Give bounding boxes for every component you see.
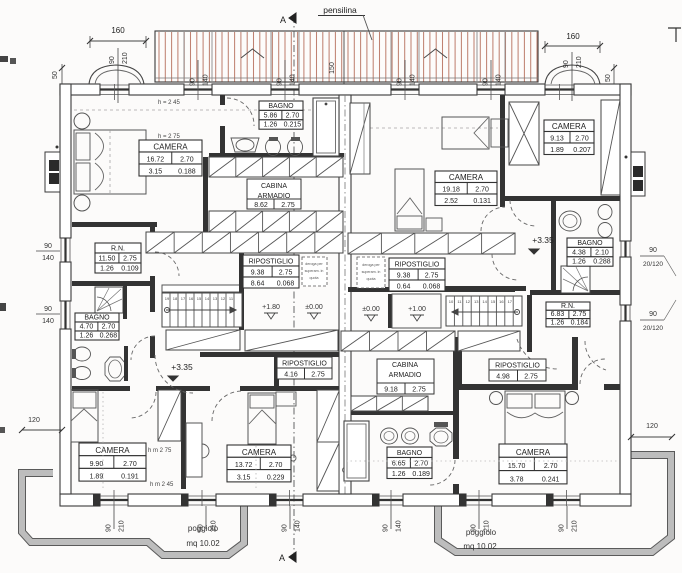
bidet bagno 4.38 — [598, 223, 612, 238]
svg-text:deroga per: deroga per — [362, 263, 380, 267]
svg-text:13: 13 — [474, 299, 479, 304]
sink B bagno 6.65 — [402, 428, 419, 444]
corridor south wall mid — [200, 352, 339, 357]
wall lamp camera 13.72 — [290, 455, 296, 461]
dimension 120 left — [19, 417, 65, 433]
svg-text:0.268: 0.268 — [100, 333, 118, 340]
wardrobe band cabina TL lower — [209, 211, 343, 232]
ripostiglio 4.98 east wall — [572, 337, 578, 390]
svg-text:CAMERA: CAMERA — [516, 448, 551, 457]
dimension 160 top-right — [542, 32, 603, 53]
svg-text:140: 140 — [396, 520, 403, 532]
table bagno left 4.70 — [75, 313, 119, 322]
dimension 160 top-left — [87, 26, 149, 48]
under-stairs band right — [341, 331, 455, 351]
svg-text:+1.80: +1.80 — [262, 304, 280, 311]
svg-text:120: 120 — [28, 417, 40, 424]
landing right unit — [392, 294, 441, 328]
svg-text:210: 210 — [119, 520, 126, 532]
bidet bagno TL — [288, 137, 303, 156]
right wall meter box — [631, 152, 645, 196]
wardrobe band corridor left — [146, 232, 343, 253]
svg-text:quota: quota — [367, 277, 376, 281]
svg-text:0.068: 0.068 — [277, 281, 295, 288]
deroga note box left — [302, 257, 327, 286]
svg-text:11.50: 11.50 — [98, 256, 115, 263]
svg-text:2.70: 2.70 — [102, 324, 116, 331]
svg-text:0.109: 0.109 — [121, 266, 139, 273]
svg-text:+3.35: +3.35 — [532, 235, 554, 245]
stairwell north wall left — [162, 285, 243, 292]
svg-text:0.189: 0.189 — [412, 471, 430, 478]
svg-text:4.70: 4.70 — [80, 324, 94, 331]
svg-text:0.229: 0.229 — [267, 474, 285, 481]
svg-text:2.70: 2.70 — [286, 112, 300, 119]
wardrobe camera 9.13 — [509, 102, 539, 165]
table ripostiglio 4.98 — [489, 359, 546, 381]
svg-text:14: 14 — [482, 299, 487, 304]
table ripostiglio left 9.38 — [243, 255, 299, 266]
door arc bagno left door — [131, 336, 155, 360]
svg-text:210: 210 — [572, 520, 579, 532]
door arc bagno 6.65 — [430, 460, 455, 485]
door arc corridor right B — [585, 341, 606, 370]
svg-text:2.10: 2.10 — [595, 249, 609, 256]
svg-text:RIPOSTIGLIO: RIPOSTIGLIO — [495, 363, 540, 370]
under-stairs closet left B — [245, 330, 338, 351]
right exterior wall — [620, 84, 631, 494]
svg-text:+1.00: +1.00 — [408, 306, 426, 313]
door arc camera 9.90 — [130, 392, 156, 418]
right wall window label 90 20/120 upper — [640, 247, 676, 276]
svg-text:0.207: 0.207 — [573, 147, 591, 154]
door arc camera 19.18 — [481, 207, 505, 231]
svg-text:2.75: 2.75 — [412, 387, 426, 394]
svg-text:140: 140 — [42, 255, 54, 262]
svg-text:1.26: 1.26 — [572, 259, 586, 266]
svg-text:2.70: 2.70 — [475, 187, 489, 194]
svg-text:150: 150 — [329, 62, 336, 74]
svg-text:15: 15 — [491, 299, 496, 304]
cabina armadio west wall — [203, 157, 208, 253]
left balcony poggiolo parapet — [22, 473, 244, 555]
top-left bow window arc — [89, 65, 144, 84]
wall camera 9.13 south — [505, 196, 620, 201]
svg-text:4.38: 4.38 — [572, 249, 586, 256]
svg-text:50: 50 — [605, 74, 612, 82]
bed camera 13.72 — [248, 392, 296, 444]
svg-text:0.131: 0.131 — [473, 198, 491, 205]
axis dotted line camera 9.90 — [102, 392, 104, 490]
svg-text:90: 90 — [559, 524, 566, 532]
door arc corridor left — [155, 355, 193, 393]
scan mark top-left — [10, 58, 16, 64]
bagno TL floor wall — [209, 153, 344, 157]
svg-text:BAGNO: BAGNO — [577, 240, 603, 247]
svg-text:pensilina: pensilina — [323, 5, 357, 15]
top exterior wall — [60, 84, 631, 100]
ripostiglio 4.16 west wall — [274, 357, 279, 386]
svg-text:4.16: 4.16 — [284, 372, 298, 379]
tall wardrobe left-centre — [317, 390, 339, 491]
svg-text:19.18: 19.18 — [442, 187, 460, 194]
wardrobe band cabina TL upper — [209, 157, 343, 177]
svg-text:h = 2 75: h = 2 75 — [158, 134, 181, 140]
right balcony poggiolo parapet — [438, 455, 671, 552]
svg-text:140: 140 — [290, 74, 297, 86]
svg-text:CAMERA: CAMERA — [95, 446, 130, 455]
table RN right — [546, 302, 590, 310]
svg-text:210: 210 — [484, 520, 491, 532]
svg-text:1.26: 1.26 — [264, 122, 278, 129]
sink A bagno 6.65 — [381, 428, 398, 444]
svg-text:mq 10.02: mq 10.02 — [186, 539, 220, 548]
svg-text:20/120: 20/120 — [643, 261, 663, 268]
staircase right unit — [446, 296, 522, 326]
svg-text:16.72: 16.72 — [147, 157, 165, 164]
canopy window projection lines — [184, 32, 505, 82]
table camera 9.13 — [544, 120, 594, 132]
svg-text:2.75: 2.75 — [281, 202, 295, 209]
svg-text:160: 160 — [111, 26, 125, 35]
svg-text:3.15: 3.15 — [149, 169, 163, 176]
sink bagno 4.38 right — [559, 211, 581, 231]
svg-text:h m 2 75: h m 2 75 — [148, 448, 172, 454]
svg-text:0.241: 0.241 — [542, 476, 560, 483]
svg-text:3.15: 3.15 — [237, 474, 251, 481]
svg-text:2.75: 2.75 — [123, 256, 137, 263]
shower bagno 4.38 — [561, 266, 590, 293]
bagno 6.65 north wall — [351, 411, 455, 415]
svg-text:90: 90 — [198, 524, 205, 532]
scan mark left edge A — [0, 56, 8, 62]
svg-text:4.98: 4.98 — [496, 374, 510, 381]
camera 15.70 north wall — [460, 384, 578, 390]
sink bagno left octagon — [105, 357, 125, 381]
svg-text:mq 10.02: mq 10.02 — [463, 542, 497, 551]
svg-text:2.70: 2.70 — [414, 461, 428, 468]
svg-text:2.52: 2.52 — [444, 198, 458, 205]
svg-text:CAMERA: CAMERA — [153, 143, 188, 152]
svg-text:90: 90 — [563, 60, 570, 68]
svg-text:deroga per: deroga per — [305, 262, 323, 266]
wardrobe right wall camera 9.13 — [601, 100, 620, 195]
svg-text:140: 140 — [203, 74, 210, 86]
svg-text:2.75: 2.75 — [524, 374, 538, 381]
svg-text:2.70: 2.70 — [123, 461, 137, 468]
table bagno TL — [259, 101, 303, 110]
door arc ripostiglio 4.98 — [517, 339, 558, 369]
svg-text:90: 90 — [649, 311, 657, 318]
wall between top cameras right — [500, 95, 505, 207]
wc bagno 6.65 octagon — [430, 422, 452, 446]
svg-text:10: 10 — [449, 299, 454, 304]
svg-text:BAGNO: BAGNO — [268, 103, 294, 110]
window label 90/210 top-left — [109, 48, 129, 103]
table RN left — [95, 243, 141, 253]
wall camera TL south — [72, 222, 157, 227]
svg-text:2.70: 2.70 — [180, 157, 194, 164]
pensilina canopy with red hatch — [155, 31, 538, 82]
wardrobe camera 9.90 — [158, 390, 181, 441]
deroga note box right — [357, 257, 385, 288]
svg-text:12: 12 — [466, 299, 471, 304]
under-stairs closet left A — [166, 330, 240, 350]
svg-text:9.18: 9.18 — [384, 387, 398, 394]
scan mark top-right corner — [668, 28, 681, 42]
shower right wall stub — [123, 285, 127, 319]
svg-text:210: 210 — [211, 520, 218, 532]
svg-text:±0.00: ±0.00 — [362, 306, 380, 313]
pensilina leader line — [363, 15, 372, 40]
svg-text:15.70: 15.70 — [508, 463, 526, 470]
axis dotted line bagno 6.65 — [346, 460, 452, 462]
svg-text:0.188: 0.188 — [178, 169, 196, 176]
svg-text:17: 17 — [181, 296, 186, 301]
bottom exterior wall — [60, 490, 631, 506]
wardrobe band cabina right — [351, 396, 428, 411]
staircase left unit — [162, 293, 242, 327]
ripostiglio right south wall — [348, 287, 515, 292]
left wall window label 90/140 upper — [36, 243, 60, 262]
svg-text:90: 90 — [44, 306, 52, 313]
svg-text:R.N.: R.N. — [561, 303, 575, 310]
svg-text:210: 210 — [576, 56, 583, 68]
svg-text:16: 16 — [499, 299, 504, 304]
door arc right corridor — [492, 254, 518, 280]
svg-text:2.75: 2.75 — [279, 270, 293, 277]
svg-text:12: 12 — [221, 296, 226, 301]
svg-text:RIPOSTIGLIO: RIPOSTIGLIO — [282, 361, 327, 368]
wall corridor south left unit — [72, 386, 130, 391]
svg-text:2.75: 2.75 — [311, 372, 325, 379]
canopy projection dashed line right — [352, 127, 498, 129]
svg-text:3.78: 3.78 — [510, 476, 524, 483]
partition right of sink — [124, 346, 128, 381]
svg-text:20/120: 20/120 — [643, 325, 663, 332]
bagno TL west wall stub — [220, 95, 225, 105]
svg-text:2.70: 2.70 — [544, 463, 558, 470]
wc bagno 4.38 — [598, 205, 612, 220]
tall wardrobe camera 19.18 — [350, 103, 370, 174]
svg-text:1.89: 1.89 — [550, 147, 564, 154]
svg-text:2.75: 2.75 — [425, 273, 439, 280]
door arc bagno TL — [227, 98, 254, 126]
section line A-A — [293, 16, 295, 560]
svg-text:19: 19 — [165, 296, 170, 301]
svg-text:6.65: 6.65 — [392, 461, 406, 468]
svg-text:0.288: 0.288 — [593, 259, 611, 266]
table camera TL — [139, 140, 202, 152]
double bed camera 15.70 — [490, 391, 579, 446]
axis dotted line camera 15.70 — [462, 460, 618, 462]
svg-text:CABINA: CABINA — [261, 183, 287, 190]
bottom window labels — [106, 506, 126, 532]
wc bagno TL — [266, 137, 281, 156]
svg-text:1.26: 1.26 — [80, 333, 94, 340]
dimension 50 top-left — [52, 64, 65, 84]
landing west wall right unit — [388, 294, 392, 328]
bed camera 19.18 horizontal — [442, 117, 508, 149]
svg-text:2.75: 2.75 — [573, 311, 587, 318]
svg-text:9.13: 9.13 — [550, 136, 564, 143]
door arc camera 13.72 — [212, 391, 242, 421]
svg-text:140: 140 — [295, 520, 302, 532]
table ripostiglio right 9.38 — [389, 258, 445, 269]
dimension 120 right — [628, 423, 675, 440]
table camera 9.90 — [79, 443, 146, 456]
central party wall — [339, 95, 351, 494]
svg-text:0.068: 0.068 — [423, 284, 441, 291]
svg-text:90: 90 — [383, 524, 390, 532]
svg-text:50: 50 — [52, 71, 59, 79]
left wall meter box — [45, 152, 60, 192]
bed camera 9.90 — [71, 390, 98, 442]
cabinet camera 13.72 with handle — [186, 423, 202, 477]
shower bagno left — [95, 287, 123, 313]
svg-text:superam. in: superam. in — [362, 270, 381, 274]
svg-text:90: 90 — [649, 247, 657, 254]
svg-text:90: 90 — [109, 56, 116, 64]
right wall window label 90 20/120 lower — [640, 300, 676, 332]
svg-text:h = 2 45: h = 2 45 — [158, 100, 181, 106]
ripostiglio west wall — [239, 253, 244, 330]
axis dotted line camera 13.72 — [255, 446, 257, 490]
canopy centre line — [343, 31, 345, 84]
svg-text:RIPOSTIGLIO: RIPOSTIGLIO — [249, 259, 294, 266]
svg-text:+3.35: +3.35 — [171, 362, 193, 372]
svg-text:1.26: 1.26 — [100, 266, 114, 273]
svg-text:0.215: 0.215 — [284, 122, 302, 129]
svg-text:140: 140 — [42, 318, 54, 325]
svg-text:1.26: 1.26 — [392, 471, 406, 478]
dimension 50 top-right — [605, 64, 617, 84]
table ripostiglio 4.16 — [277, 357, 332, 379]
svg-text:90: 90 — [471, 524, 478, 532]
bathtub bagno 6.65 — [344, 421, 369, 481]
svg-text:17: 17 — [508, 299, 513, 304]
ripostiglio 4.98 west wall — [453, 337, 462, 390]
sink bagno TL — [231, 138, 259, 152]
svg-text:A: A — [279, 553, 285, 563]
svg-text:0.64: 0.64 — [397, 284, 411, 291]
left wall window label 90/140 lower — [36, 306, 60, 325]
svg-text:160: 160 — [566, 32, 580, 41]
bathtub bagno TL — [313, 98, 339, 156]
wardrobe band right unit upper — [348, 233, 515, 254]
svg-text:2.70: 2.70 — [575, 136, 589, 143]
scan mark left edge B — [0, 303, 6, 311]
svg-text:90: 90 — [282, 524, 289, 532]
wall RN/bagno divider — [72, 281, 150, 286]
bagno 4.38 west wall — [551, 201, 556, 294]
canopy window labels 90/140 — [197, 60, 199, 88]
svg-text:0.191: 0.191 — [121, 474, 139, 481]
svg-text:superam. in: superam. in — [305, 269, 324, 273]
svg-text:2.70: 2.70 — [269, 462, 283, 469]
table camera 19.18 — [435, 171, 497, 183]
table bagno 4.38 — [567, 238, 613, 247]
table bagno 6.65 — [387, 447, 432, 458]
svg-text:ARMADIO: ARMADIO — [389, 372, 422, 379]
svg-text:CAMERA: CAMERA — [449, 173, 484, 182]
svg-text:RIPOSTIGLIO: RIPOSTIGLIO — [395, 262, 440, 269]
scan mark left edge C — [0, 427, 5, 433]
svg-text:140: 140 — [496, 74, 503, 86]
svg-text:210: 210 — [122, 52, 129, 64]
svg-text:R.N.: R.N. — [111, 246, 125, 253]
RN right west wall — [527, 295, 532, 352]
svg-text:90: 90 — [44, 243, 52, 250]
svg-text:13.72: 13.72 — [235, 462, 253, 469]
stairwell north wall right — [441, 286, 526, 291]
door arc camera 15.70 vestibule — [580, 359, 605, 384]
table cabina armadio left — [247, 179, 301, 209]
svg-text:h m 2 45: h m 2 45 — [150, 482, 174, 488]
top-right bow window arc — [545, 65, 600, 84]
party wall knob — [343, 468, 348, 473]
svg-text:CABINA: CABINA — [392, 362, 418, 369]
svg-text:1.89: 1.89 — [90, 474, 104, 481]
svg-text:BAGNO: BAGNO — [397, 450, 423, 457]
wc bagno left — [72, 347, 91, 361]
svg-text:140: 140 — [410, 74, 417, 86]
svg-text:0.184: 0.184 — [571, 319, 589, 326]
table cabina armadio right — [377, 359, 434, 394]
svg-text:9.38: 9.38 — [251, 270, 265, 277]
canopy chevron left — [241, 49, 264, 58]
left exterior wall — [60, 84, 71, 494]
bagno 4.38 south wall — [530, 290, 620, 295]
bed camera 19.18 vertical — [395, 169, 442, 231]
svg-text:quota: quota — [310, 276, 319, 280]
svg-text:BAGNO: BAGNO — [84, 315, 110, 322]
svg-text:13: 13 — [213, 296, 218, 301]
svg-text:9.90: 9.90 — [90, 461, 104, 468]
svg-text:90: 90 — [106, 524, 113, 532]
svg-text:9.38: 9.38 — [397, 273, 411, 280]
svg-text:16: 16 — [189, 296, 194, 301]
canopy projection dashed line left — [74, 109, 338, 111]
svg-text:CAMERA: CAMERA — [552, 122, 587, 131]
svg-text:14: 14 — [205, 296, 210, 301]
svg-text:120: 120 — [646, 423, 658, 430]
svg-text:A: A — [280, 15, 286, 25]
table camera 15.70 — [499, 444, 567, 457]
bagno 6.65 east wall — [453, 390, 459, 459]
svg-text:5.86: 5.86 — [264, 112, 278, 119]
wall RN east — [150, 222, 155, 252]
wall between bottom cameras left — [181, 389, 186, 489]
bidet bagno left — [72, 367, 91, 380]
svg-text:8.62: 8.62 — [254, 202, 268, 209]
svg-text:1.26: 1.26 — [551, 319, 565, 326]
door arc camera 9.13 — [510, 200, 536, 226]
svg-text:15: 15 — [197, 296, 202, 301]
svg-text:8.64: 8.64 — [251, 281, 265, 288]
svg-text:±0.00: ±0.00 — [305, 304, 323, 311]
svg-text:18: 18 — [173, 296, 178, 301]
svg-text:CAMERA: CAMERA — [242, 448, 277, 457]
canopy chevron right — [424, 49, 447, 58]
window label 90/210 top-right — [563, 52, 583, 101]
door arc RN left — [155, 252, 179, 276]
table camera 13.72 — [227, 445, 291, 457]
bed camera top-left — [74, 113, 146, 211]
svg-text:6.83: 6.83 — [551, 311, 565, 318]
